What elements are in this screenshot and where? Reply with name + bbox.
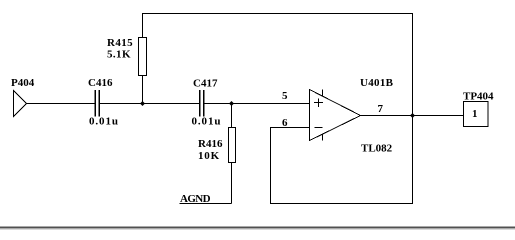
svg-text:1: 1 (472, 108, 478, 120)
svg-text:10K: 10K (198, 150, 220, 162)
svg-text:5: 5 (282, 90, 288, 102)
svg-text:AGND: AGND (180, 193, 211, 205)
svg-text:C416: C416 (88, 77, 113, 89)
svg-text:TP404: TP404 (463, 91, 494, 103)
svg-text:R415: R415 (107, 37, 133, 49)
svg-text:5.1K: 5.1K (107, 49, 131, 61)
svg-text:0.01u: 0.01u (192, 116, 222, 128)
svg-text:7: 7 (378, 103, 384, 115)
svg-text:TL082: TL082 (361, 143, 393, 155)
svg-text:R416: R416 (198, 138, 223, 150)
svg-text:U401B: U401B (360, 77, 394, 89)
svg-text:P404: P404 (11, 77, 35, 89)
svg-text:6: 6 (282, 117, 288, 129)
svg-text:C417: C417 (193, 78, 218, 90)
svg-text:0.01u: 0.01u (89, 116, 119, 128)
